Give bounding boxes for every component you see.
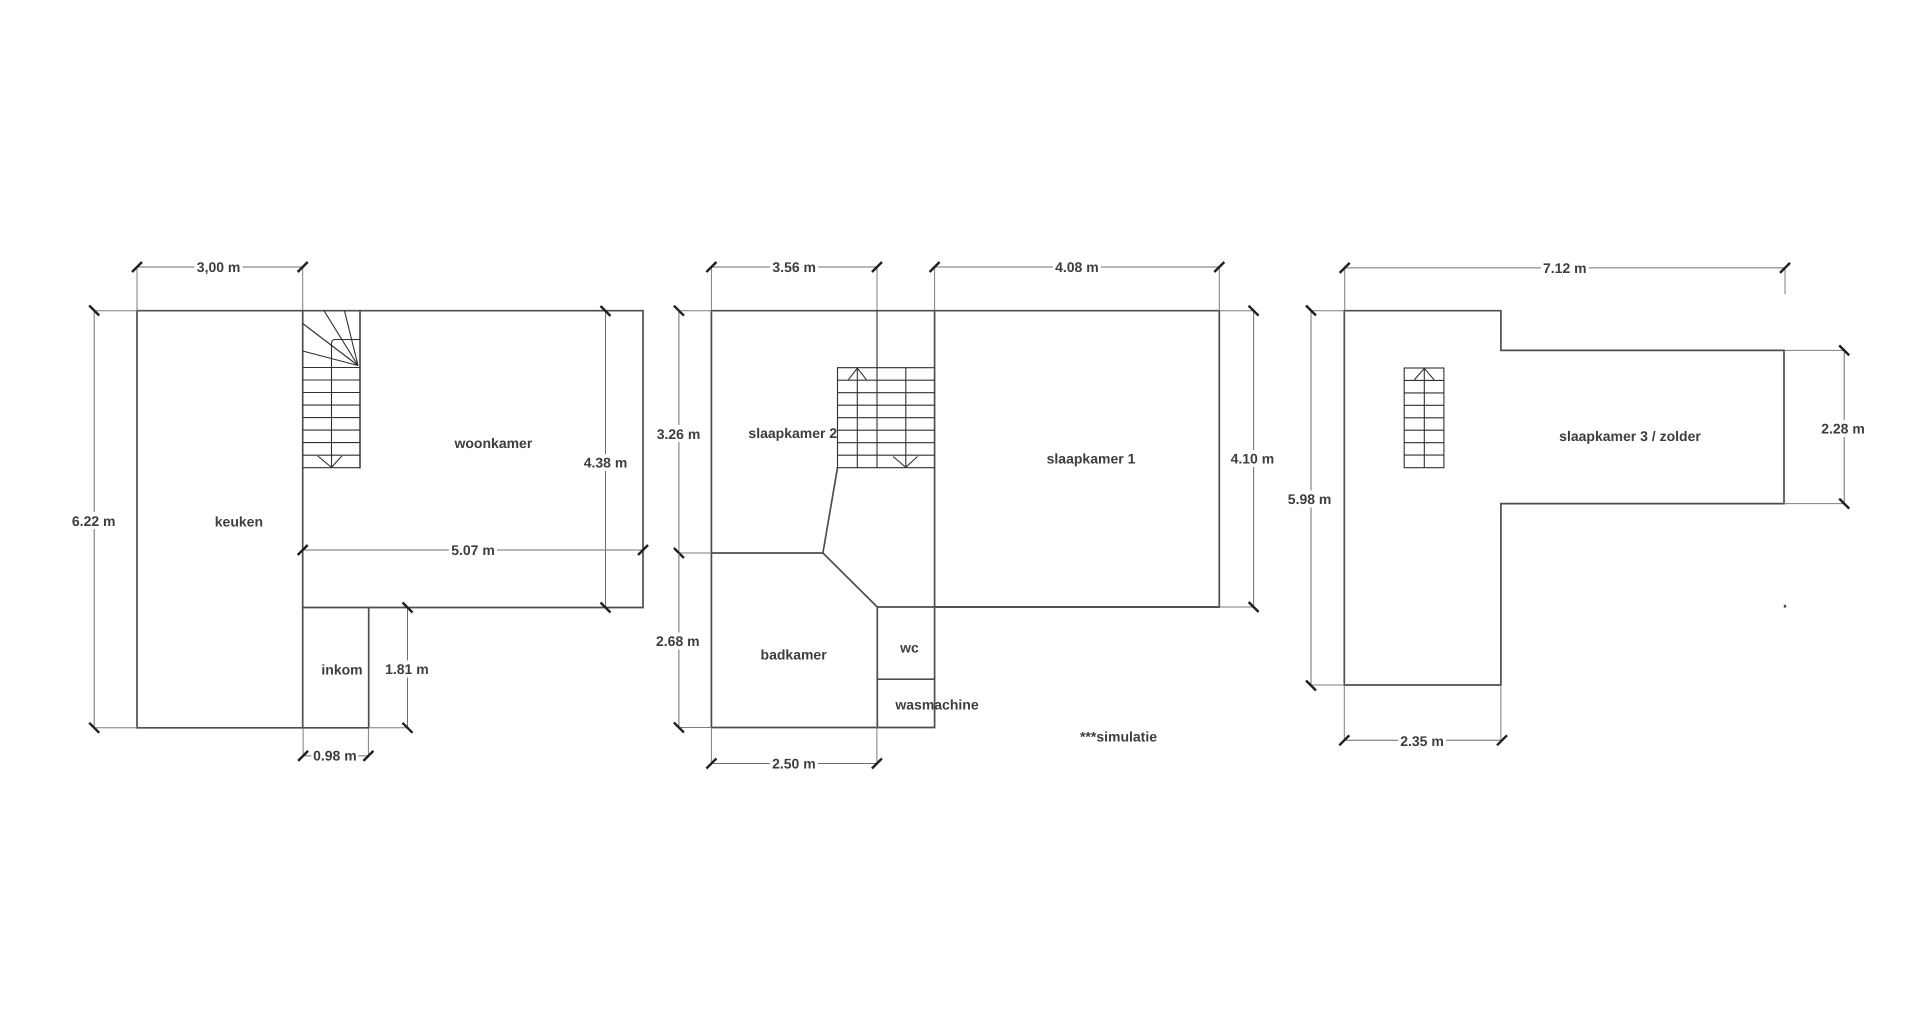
svg-text:3.26 m: 3.26 m xyxy=(657,426,701,442)
staircase right plan: box xyxy=(1404,368,1444,468)
svg-text:3,00 m: 3,00 m xyxy=(197,259,241,275)
svg-text:5.07 m: 5.07 m xyxy=(451,542,495,558)
dimension 4.08 m (slaapkamer 1 width) xyxy=(930,259,1225,310)
staircase right plan: up arrow head xyxy=(1414,368,1434,380)
wall woonkamer bottom / inkom top xyxy=(303,607,369,609)
wall stair middle divider xyxy=(876,311,878,468)
dimension 7.12 m (zolder width) xyxy=(1340,260,1790,310)
svg-text:4.10 m: 4.10 m xyxy=(1231,450,1275,466)
svg-text:3.56 m: 3.56 m xyxy=(772,259,816,275)
dimension 0.98 m (inkom width) xyxy=(298,728,373,764)
staircase middle plan: down arrow right flight xyxy=(905,368,907,468)
staircase left plan: down arrow head xyxy=(318,456,342,467)
svg-text:0.98 m: 0.98 m xyxy=(313,748,357,764)
svg-text:2.68 m: 2.68 m xyxy=(656,633,700,649)
dimension 2.35 m (bottom wing width) xyxy=(1339,685,1507,749)
dimension 2.68 m (badkamer height) xyxy=(654,553,712,733)
svg-text:4.08 m: 4.08 m xyxy=(1055,259,1099,275)
wall slaapkamer1 left / stair right (vertical) xyxy=(934,311,936,607)
dimension 6.22 m (left height) xyxy=(70,306,137,733)
outer wall outline middle plan xyxy=(711,311,1219,728)
svg-text:keuken: keuken xyxy=(215,513,263,529)
svg-text:slaapkamer 3 / zolder: slaapkamer 3 / zolder xyxy=(1559,428,1701,444)
wall wc bottom / wasmachine top xyxy=(877,678,934,680)
dimension 3,00 m (keuken width) xyxy=(132,259,308,310)
svg-text:2.50 m: 2.50 m xyxy=(772,756,816,772)
dimension 2.50 m (badkamer width) xyxy=(706,728,882,772)
outer wall outline left plan xyxy=(137,311,643,728)
dimension 3.26 m (slaapkamer 2 height) xyxy=(655,306,712,558)
svg-text:slaapkamer 2: slaapkamer 2 xyxy=(748,425,837,441)
svg-text:2.28 m: 2.28 m xyxy=(1821,421,1865,437)
staircase right plan: treads xyxy=(1404,380,1444,455)
svg-text:***simulatie: ***simulatie xyxy=(1080,729,1157,745)
outer wall outline right plan xyxy=(1344,311,1784,685)
staircase left plan: bottom edge xyxy=(303,467,360,469)
svg-text:7.12 m: 7.12 m xyxy=(1543,260,1587,276)
staircase left plan: winder fan rays xyxy=(303,311,358,366)
svg-text:5.98 m: 5.98 m xyxy=(1288,491,1332,507)
staircase left plan: inner rail line xyxy=(332,340,361,468)
dimension 4.38 m (woonkamer height) xyxy=(582,306,630,613)
svg-text:2.35 m: 2.35 m xyxy=(1400,733,1444,749)
svg-text:4.38 m: 4.38 m xyxy=(584,455,628,471)
dimension 5.07 m (woonkamer width) xyxy=(298,542,648,558)
wall diagonal slaapkamer2 to stair xyxy=(823,468,838,553)
staircase middle plan: up arrow left flight xyxy=(856,368,858,468)
svg-text:6.22 m: 6.22 m xyxy=(72,513,116,529)
dimension 4.10 m (slaapkamer 1 height) xyxy=(1219,306,1276,612)
dimension 5.98 m (zolder height) xyxy=(1286,306,1345,691)
wall wc left xyxy=(876,607,878,728)
staircase middle plan: treads xyxy=(838,380,935,455)
staircase middle plan: box xyxy=(838,368,935,468)
svg-text:inkom: inkom xyxy=(321,661,362,677)
dimension 3.56 m (slaapkamer 2 width) xyxy=(706,259,882,310)
dimension 1.81 m (inkom height) xyxy=(369,603,431,733)
svg-text:wasmachine: wasmachine xyxy=(894,696,978,712)
svg-text:1.81 m: 1.81 m xyxy=(385,661,429,677)
staircase left plan: right wall xyxy=(359,311,361,468)
staircase left plan: treads xyxy=(303,368,360,456)
wall diagonal badkamer to wc xyxy=(823,553,877,607)
stray dot mark xyxy=(1784,605,1786,608)
svg-text:woonkamer: woonkamer xyxy=(453,435,532,451)
svg-text:badkamer: badkamer xyxy=(761,646,828,662)
svg-text:wc: wc xyxy=(899,640,919,656)
svg-text:slaapkamer 1: slaapkamer 1 xyxy=(1047,451,1136,467)
dimension 2.28 m (right wing height) xyxy=(1784,345,1867,508)
wall keuken/woonkamer divider xyxy=(302,311,304,728)
wall slaapkamer1 bottom / wc top xyxy=(877,606,1219,608)
wall slaapkamer2/badkamer (horizontal) xyxy=(711,552,823,554)
staircase right plan: center line xyxy=(1423,368,1425,468)
